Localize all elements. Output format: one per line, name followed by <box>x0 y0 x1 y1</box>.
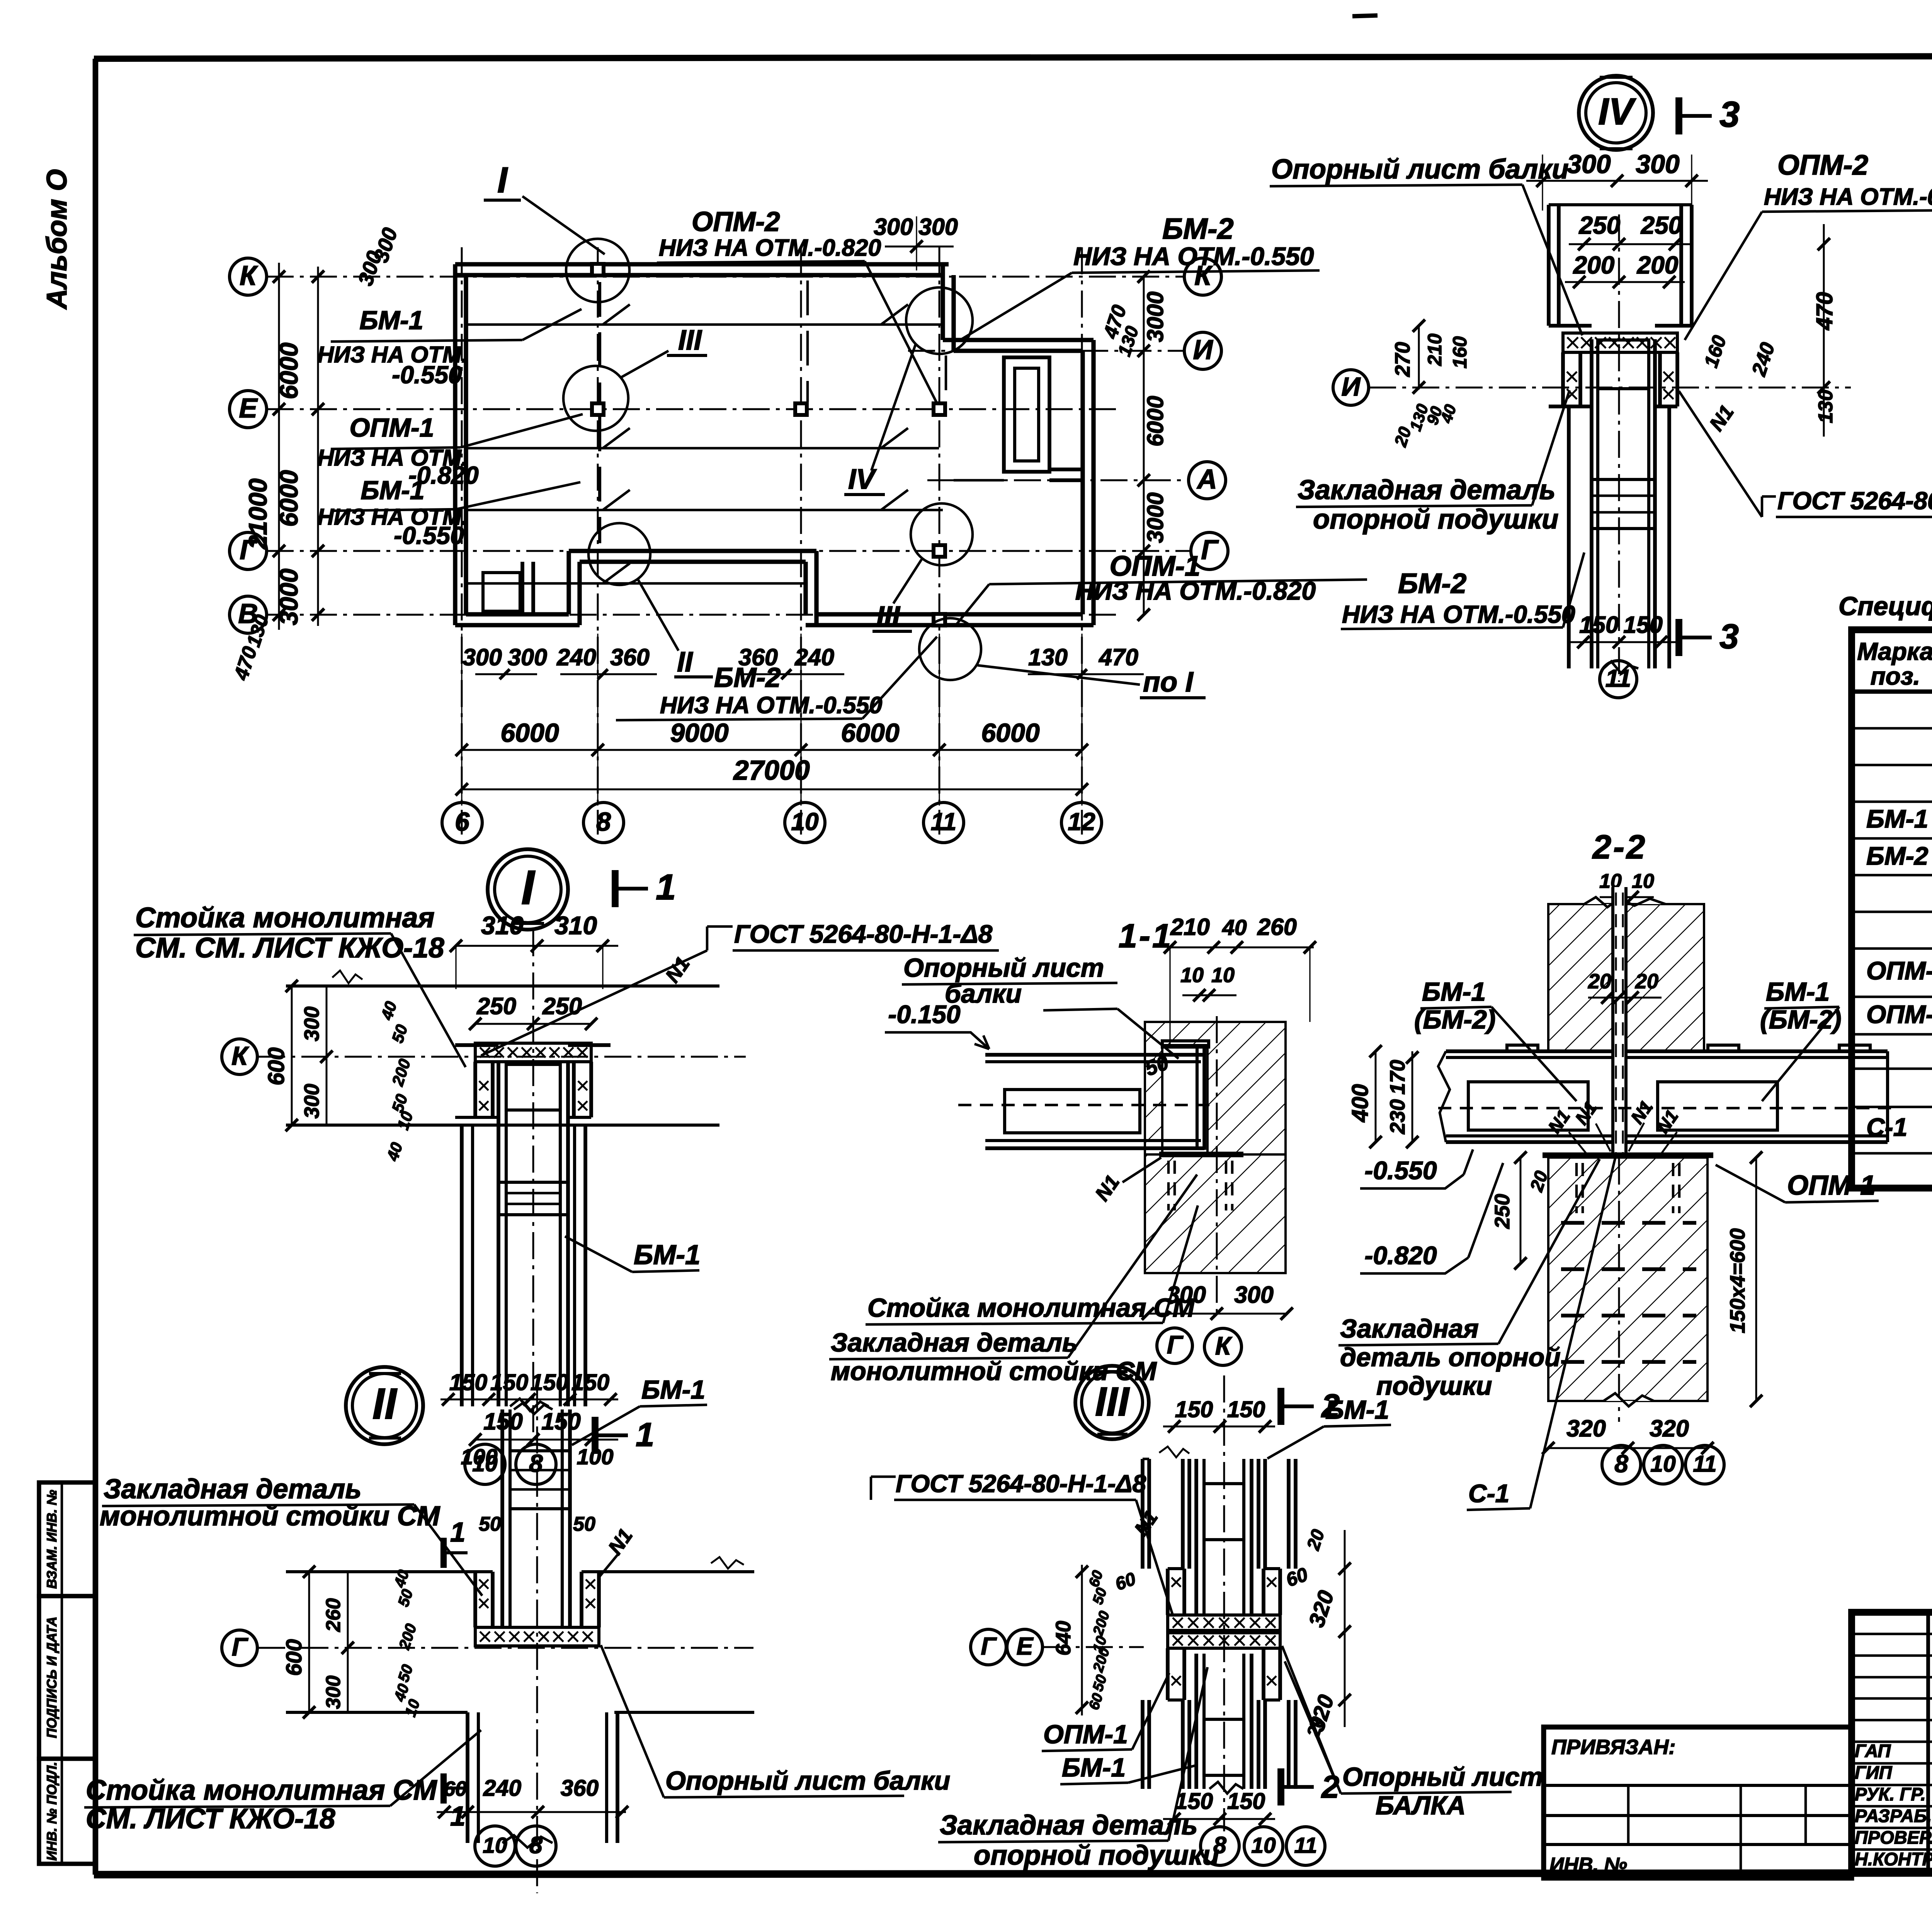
svg-text:ПРИВЯЗАН:: ПРИВЯЗАН: <box>1551 1736 1675 1759</box>
svg-text:200: 200 <box>1573 251 1615 279</box>
svg-text:Спецификация к схеме расположе: Спецификация к схеме расположения балок … <box>1838 592 1932 621</box>
svg-text:600: 600 <box>282 1639 306 1676</box>
svg-text:10: 10 <box>1251 1833 1276 1858</box>
svg-text:III: III <box>1095 1379 1130 1425</box>
svg-text:8: 8 <box>1614 1450 1628 1477</box>
svg-text:6000: 6000 <box>841 718 899 748</box>
svg-text:по I: по I <box>1143 666 1194 698</box>
svg-text:Е: Е <box>1017 1632 1034 1660</box>
svg-text:И: И <box>1193 335 1213 365</box>
svg-text:ОПМ-1: ОПМ-1 <box>1787 1170 1876 1201</box>
svg-text:250: 250 <box>1491 1194 1514 1229</box>
svg-text:II: II <box>372 1379 398 1428</box>
svg-text:деталь опорной: деталь опорной <box>1340 1343 1561 1372</box>
svg-text:250: 250 <box>1579 211 1621 239</box>
svg-text:подушки: подушки <box>1376 1371 1492 1401</box>
svg-text:БМ-2: БМ-2 <box>1162 212 1234 245</box>
svg-text:IV: IV <box>1598 90 1636 133</box>
svg-text:Г: Г <box>1167 1330 1184 1359</box>
svg-text:150: 150 <box>1623 612 1663 638</box>
svg-text:ГИП: ГИП <box>1855 1762 1893 1783</box>
svg-text:БМ-1: БМ-1 <box>359 306 423 335</box>
svg-text:10: 10 <box>1632 870 1654 892</box>
svg-text:11: 11 <box>1294 1833 1317 1858</box>
svg-text:27000: 27000 <box>733 755 810 786</box>
svg-text:I: I <box>497 160 508 200</box>
svg-text:300: 300 <box>508 644 547 670</box>
svg-text:210: 210 <box>1424 333 1446 366</box>
svg-text:11: 11 <box>931 807 956 835</box>
svg-text:БМ-1: БМ-1 <box>1422 977 1486 1006</box>
svg-text:3000: 3000 <box>1143 291 1168 342</box>
svg-text:300: 300 <box>322 1676 345 1709</box>
svg-text:опорной подушки: опорной подушки <box>1313 504 1558 535</box>
svg-text:600: 600 <box>264 1047 289 1086</box>
svg-text:Закладная деталь: Закладная деталь <box>104 1474 362 1504</box>
svg-text:250: 250 <box>476 993 516 1019</box>
svg-text:10: 10 <box>1650 1451 1676 1477</box>
svg-text:6000: 6000 <box>500 718 559 748</box>
svg-text:300: 300 <box>874 214 913 240</box>
svg-text:320: 320 <box>1566 1415 1606 1442</box>
svg-text:130: 130 <box>1028 644 1068 670</box>
svg-text:8: 8 <box>529 1832 543 1858</box>
svg-text:50: 50 <box>573 1513 595 1535</box>
svg-text:БМ-1: БМ-1 <box>1766 977 1830 1006</box>
svg-text:III: III <box>876 601 901 632</box>
svg-text:БМ-2: БМ-2 <box>1866 841 1929 870</box>
svg-text:300: 300 <box>300 1006 323 1041</box>
svg-text:150: 150 <box>1227 1397 1265 1422</box>
svg-text:-0.550: -0.550 <box>392 361 462 389</box>
svg-text:НИЗ НА ОТМ.-0.550: НИЗ НА ОТМ.-0.550 <box>1073 242 1314 270</box>
svg-text:ОПМ-1: ОПМ-1 <box>350 413 434 442</box>
svg-text:Опорный лист балки: Опорный лист балки <box>665 1766 950 1795</box>
svg-text:НИЗ НА ОТМ.-0.820: НИЗ НА ОТМ.-0.820 <box>1764 184 1932 210</box>
svg-text:Закладная деталь: Закладная деталь <box>940 1810 1198 1841</box>
svg-text:БМ-1: БМ-1 <box>1325 1395 1389 1425</box>
svg-text:ОПМ-1: ОПМ-1 <box>1866 956 1932 985</box>
svg-text:НИЗ НА ОТМ.-0.820: НИЗ НА ОТМ.-0.820 <box>659 235 881 261</box>
svg-text:ГОСТ 5264-80-Н-1-Δ8: ГОСТ 5264-80-Н-1-Δ8 <box>896 1470 1146 1498</box>
svg-text:310: 310 <box>481 911 524 940</box>
svg-text:ОПМ-2: ОПМ-2 <box>1866 1000 1932 1028</box>
svg-text:20: 20 <box>1635 970 1658 993</box>
svg-text:Закладная: Закладная <box>1340 1314 1479 1343</box>
svg-text:10: 10 <box>791 807 818 835</box>
svg-text:Н.КОНТР: Н.КОНТР <box>1855 1849 1932 1869</box>
svg-text:640: 640 <box>1052 1621 1075 1656</box>
svg-text:ОПМ-2: ОПМ-2 <box>1777 150 1868 181</box>
svg-text:1: 1 <box>656 867 676 907</box>
svg-text:-0.820: -0.820 <box>1364 1241 1437 1270</box>
svg-text:100: 100 <box>577 1445 613 1469</box>
svg-text:240: 240 <box>794 644 834 670</box>
svg-text:IV: IV <box>848 464 877 495</box>
svg-text:6000: 6000 <box>274 470 303 527</box>
svg-text:ВЗАМ. ИНВ. №: ВЗАМ. ИНВ. № <box>44 1490 60 1589</box>
svg-text:1: 1 <box>450 1517 466 1548</box>
svg-text:150: 150 <box>1579 612 1619 638</box>
svg-text:60: 60 <box>444 1777 467 1800</box>
svg-text:150: 150 <box>1227 1788 1265 1814</box>
svg-text:250: 250 <box>1641 211 1682 239</box>
svg-text:160: 160 <box>1449 336 1471 369</box>
svg-text:И: И <box>1342 372 1361 401</box>
svg-text:Г: Г <box>1201 535 1219 566</box>
svg-text:БМ-1: БМ-1 <box>361 476 424 505</box>
svg-text:300: 300 <box>918 214 958 240</box>
svg-text:310: 310 <box>554 911 597 940</box>
svg-text:300: 300 <box>1234 1282 1274 1308</box>
svg-text:20: 20 <box>1588 970 1611 993</box>
svg-text:1-1: 1-1 <box>1119 917 1173 955</box>
svg-text:210: 210 <box>1170 914 1210 940</box>
svg-text:РАЗРАБ.: РАЗРАБ. <box>1855 1805 1932 1826</box>
svg-text:III: III <box>678 325 702 356</box>
svg-text:ОПМ-1: ОПМ-1 <box>1043 1720 1128 1749</box>
svg-text:6000: 6000 <box>1143 396 1168 446</box>
svg-text:НИЗ НА ОТМ.-0.550: НИЗ НА ОТМ.-0.550 <box>1342 600 1575 628</box>
svg-text:Закладная деталь: Закладная деталь <box>1298 475 1556 505</box>
svg-text:6000: 6000 <box>981 718 1039 748</box>
svg-text:К: К <box>1215 1331 1233 1360</box>
svg-text:ОПМ-2: ОПМ-2 <box>692 207 780 237</box>
svg-text:ГОСТ 5264-80-Н-1-Δ8: ГОСТ 5264-80-Н-1-Δ8 <box>734 920 993 948</box>
svg-text:2-2: 2-2 <box>1592 828 1647 866</box>
svg-text:-0.550: -0.550 <box>1364 1156 1437 1185</box>
svg-text:130: 130 <box>1815 390 1837 423</box>
svg-text:320: 320 <box>1650 1415 1689 1442</box>
svg-text:360: 360 <box>738 644 778 670</box>
svg-text:270: 270 <box>1391 342 1414 377</box>
svg-text:Стойка монолитная СМ: Стойка монолитная СМ <box>86 1775 437 1806</box>
svg-text:260: 260 <box>1257 914 1297 940</box>
svg-text:Е: Е <box>239 393 258 424</box>
svg-text:300: 300 <box>1636 150 1680 179</box>
svg-text:Стойка монолитная СМ: Стойка монолитная СМ <box>867 1293 1195 1323</box>
svg-text:11: 11 <box>1693 1451 1716 1477</box>
svg-text:8: 8 <box>529 1449 543 1477</box>
svg-text:400: 400 <box>1347 1084 1373 1123</box>
svg-text:100: 100 <box>461 1445 497 1469</box>
svg-text:300: 300 <box>300 1084 323 1119</box>
svg-text:3: 3 <box>1719 94 1740 134</box>
svg-text:опорной подушки: опорной подушки <box>974 1840 1219 1871</box>
svg-text:-0.550: -0.550 <box>394 522 464 549</box>
svg-text:II: II <box>677 646 693 678</box>
svg-text:I: I <box>521 861 536 915</box>
svg-text:БМ-1: БМ-1 <box>1062 1753 1126 1782</box>
svg-text:Г: Г <box>232 1632 248 1661</box>
svg-text:Закладная деталь: Закладная деталь <box>831 1328 1078 1357</box>
svg-text:240: 240 <box>556 644 596 670</box>
svg-text:170: 170 <box>1386 1060 1409 1095</box>
svg-text:150: 150 <box>1175 1397 1213 1422</box>
svg-text:1: 1 <box>636 1416 654 1453</box>
svg-text:260: 260 <box>322 1598 345 1632</box>
svg-text:К: К <box>231 1041 249 1071</box>
svg-text:Стойка монолитная: Стойка монолитная <box>135 902 434 933</box>
svg-text:БМ-2: БМ-2 <box>1398 568 1466 599</box>
svg-text:поз.: поз. <box>1871 662 1920 690</box>
svg-text:9000: 9000 <box>670 718 728 748</box>
svg-text:ИНВ. № ПОДЛ.: ИНВ. № ПОДЛ. <box>44 1762 60 1861</box>
svg-text:НИЗ НА ОТМ.-0.820: НИЗ НА ОТМ.-0.820 <box>1075 576 1316 605</box>
svg-text:БАЛКА: БАЛКА <box>1376 1791 1466 1820</box>
svg-text:Альбом О: Альбом О <box>41 169 73 310</box>
svg-text:150: 150 <box>449 1370 488 1395</box>
svg-text:3000: 3000 <box>1143 492 1168 543</box>
svg-text:Опорный лист: Опорный лист <box>903 953 1104 983</box>
svg-text:230: 230 <box>1386 1099 1409 1134</box>
svg-text:3000: 3000 <box>274 568 303 625</box>
svg-text:40: 40 <box>1222 915 1247 940</box>
svg-text:6000: 6000 <box>274 342 303 399</box>
svg-text:3: 3 <box>1719 617 1739 656</box>
svg-text:ГАП: ГАП <box>1855 1741 1891 1761</box>
svg-text:8: 8 <box>596 807 611 836</box>
svg-text:300: 300 <box>1567 150 1611 179</box>
svg-text:150х4=600: 150х4=600 <box>1726 1228 1749 1333</box>
svg-text:10: 10 <box>483 1833 507 1858</box>
svg-text:ПОДПИСЬ И ДАТА: ПОДПИСЬ И ДАТА <box>44 1617 60 1738</box>
svg-text:10: 10 <box>1180 964 1204 987</box>
svg-text:150: 150 <box>571 1370 610 1395</box>
svg-text:10: 10 <box>1211 964 1235 987</box>
svg-text:БМ-1: БМ-1 <box>634 1240 701 1270</box>
svg-text:Г: Г <box>981 1632 997 1660</box>
svg-text:2: 2 <box>1321 1769 1339 1805</box>
svg-text:6: 6 <box>455 807 470 836</box>
svg-text:300: 300 <box>463 644 502 670</box>
svg-text:12: 12 <box>1068 807 1095 835</box>
svg-text:Опорный лист балки: Опорный лист балки <box>1271 154 1569 185</box>
svg-text:ПРОВЕР.: ПРОВЕР. <box>1855 1827 1932 1848</box>
svg-text:С-1: С-1 <box>1468 1479 1509 1508</box>
svg-text:А: А <box>1196 464 1217 495</box>
svg-text:БМ-1: БМ-1 <box>641 1375 705 1404</box>
svg-text:К: К <box>240 261 258 291</box>
svg-text:470: 470 <box>1098 644 1138 670</box>
svg-text:200: 200 <box>1637 251 1679 279</box>
svg-text:БМ-1: БМ-1 <box>1866 804 1928 833</box>
svg-text:НИЗ НА ОТМ.-0.550: НИЗ НА ОТМ.-0.550 <box>660 692 882 718</box>
svg-text:360: 360 <box>561 1775 599 1801</box>
svg-text:360: 360 <box>610 644 650 670</box>
svg-text:ГОСТ 5264-80-Н1-Δ8: ГОСТ 5264-80-Н1-Δ8 <box>1777 487 1932 515</box>
svg-text:-0.150: -0.150 <box>888 1000 960 1028</box>
svg-text:250: 250 <box>542 993 582 1019</box>
svg-text:ИНВ. №: ИНВ. № <box>1549 1854 1627 1876</box>
svg-text:50: 50 <box>479 1513 501 1535</box>
svg-text:РУК. ГР.: РУК. ГР. <box>1855 1784 1926 1804</box>
svg-text:470: 470 <box>1812 292 1837 331</box>
svg-text:240: 240 <box>483 1775 522 1801</box>
svg-text:11: 11 <box>1605 664 1631 692</box>
svg-text:Опорный лист: Опорный лист <box>1342 1762 1543 1792</box>
svg-text:Марка: Марка <box>1857 637 1932 665</box>
svg-text:150: 150 <box>490 1370 529 1395</box>
svg-text:21000: 21000 <box>243 478 272 550</box>
